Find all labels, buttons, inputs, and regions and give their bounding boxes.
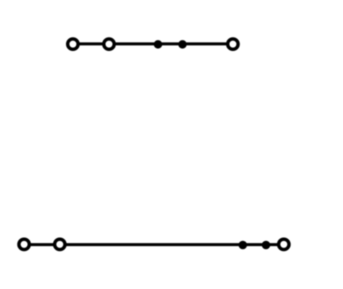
terminal T4 (open circle, bottom-left)	[19, 239, 29, 249]
wire: top rail	[73, 42, 233, 45]
terminal T3 (open circle, top-right)	[228, 39, 238, 49]
junction J2 (filled dot, top)	[178, 40, 187, 49]
junction J3 (filled dot, bottom)	[239, 241, 248, 250]
terminal T1 (open circle, top-left)	[68, 39, 78, 49]
terminal T5 (open circle, bottom)	[55, 239, 65, 249]
terminal T6 (open circle, bottom-right)	[279, 239, 289, 249]
terminal T2 (open circle, top)	[104, 39, 114, 49]
junction J1 (filled dot, top)	[154, 40, 163, 49]
junction J4 (filled dot, bottom)	[262, 241, 271, 250]
wire: bottom rail	[24, 243, 284, 246]
